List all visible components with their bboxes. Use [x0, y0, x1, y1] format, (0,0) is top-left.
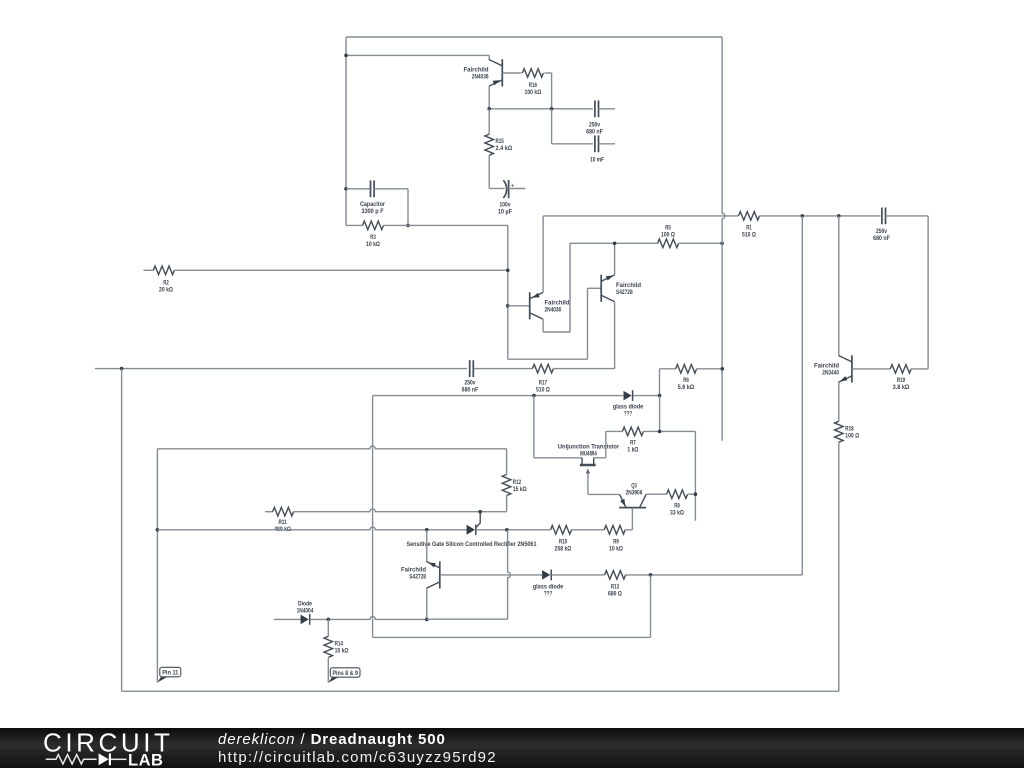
resistor R16: [522, 69, 543, 78]
unijunction transistor MU4894: [580, 458, 596, 495]
wire Q1 collector lead: [488, 55, 490, 59]
svg-text:glass diode: glass diode: [613, 404, 644, 411]
wire Q4 base: [588, 287, 602, 289]
wire R2 left stub: [144, 269, 154, 271]
resistor R11: [273, 507, 294, 516]
svg-text:10 kΩ: 10 kΩ: [366, 241, 380, 248]
wire R6 corner drop: [659, 369, 661, 396]
wire R6 right: [697, 368, 723, 370]
diode D3 1N4004: [301, 614, 310, 625]
svg-text:S42728: S42728: [409, 574, 426, 581]
svg-text:glass diode: glass diode: [533, 584, 564, 591]
capacitor C2 10 mF: [595, 135, 599, 152]
wire Q3 base lead: [631, 508, 633, 530]
wire drop x507 lower: [508, 530, 511, 619]
wire Q2 collector across: [543, 331, 570, 333]
wire rail x157: [156, 449, 158, 683]
svg-text:100 kΩ: 100 kΩ: [525, 89, 542, 96]
resistor R7: [622, 427, 643, 436]
node left-rail junction: [120, 367, 124, 371]
wire C1 right stub: [599, 108, 616, 110]
wire R2 long: [174, 269, 508, 271]
scr 2N5061 Sensitive Gate SCR: [467, 512, 481, 535]
label C5 250v 680nF: [873, 228, 890, 242]
svg-text:R3: R3: [370, 234, 376, 241]
node Q6 collector node: [425, 618, 429, 622]
label Q4 Fairchild S42728: [616, 282, 641, 296]
wire Q1 base: [502, 72, 521, 74]
wire R9 to Q3: [625, 529, 632, 531]
wire Q6 emitter up: [426, 530, 428, 562]
svg-text:???: ???: [544, 591, 552, 598]
wire right drop x928: [927, 216, 929, 369]
node at top-left junction: [344, 54, 348, 58]
CircuitLab logo: [42, 729, 182, 767]
wire Q5 base: [852, 368, 890, 370]
svg-text:R18: R18: [845, 426, 853, 433]
resistor R1: [739, 212, 760, 221]
resistor R3: [363, 221, 384, 230]
wire Q6 base row: [440, 574, 542, 576]
label C1 250v 680nF: [586, 122, 603, 136]
label Q6 Fairchild S42728: [401, 567, 426, 581]
wire R17 right: [553, 368, 614, 370]
node D3 junction R14: [327, 618, 331, 622]
label R16 100k: [525, 82, 542, 96]
label C3 100v 10uF: [498, 202, 512, 216]
wire Q2 emitter up: [542, 216, 544, 293]
resistor R5: [658, 239, 679, 248]
transistor Q5 Fairchild 2N3440: [839, 355, 852, 382]
wire C5 right: [886, 215, 929, 217]
label R18 100: [845, 426, 859, 440]
resistor R15: [485, 134, 494, 155]
label R7 1k: [627, 440, 639, 454]
wire C between R10 R9: [572, 529, 605, 531]
wire center drop x508: [507, 225, 509, 359]
svg-text:R10: R10: [559, 539, 567, 546]
wire Q1 emitter lead: [488, 86, 490, 108]
wire R14 top lead: [327, 619, 329, 636]
wire Q6 collector down: [426, 588, 428, 619]
label Q1 Fairchild 2N4036: [464, 67, 489, 81]
svg-text:Fairchild: Fairchild: [814, 363, 839, 370]
node SCR gate junction: [478, 510, 482, 514]
wire D1 right: [633, 395, 659, 397]
svg-text:Fairchild: Fairchild: [464, 67, 489, 74]
svg-text:3.8 kΩ: 3.8 kΩ: [893, 384, 910, 391]
wire R1 right: [760, 215, 881, 217]
svg-text:680 Ω: 680 Ω: [608, 591, 622, 598]
wire D2 to R13: [552, 574, 605, 576]
wire R7 right: [643, 430, 695, 432]
wire C after SCR: [477, 529, 551, 531]
resistor R10: [551, 526, 572, 535]
svg-text:R8: R8: [674, 503, 680, 510]
transistor Q6 Fairchild S42728: [426, 561, 439, 588]
svg-text:Diode: Diode: [298, 601, 312, 608]
flag Pin 11: [157, 667, 180, 682]
svg-text:Sensitive Gate Silicon Control: Sensitive Gate Silicon Controlled Rectif…: [407, 541, 537, 548]
svg-text:R1: R1: [746, 225, 752, 232]
capacitor C6 250v 680nF mid: [470, 360, 474, 377]
transistor Q1 Fairchild 2N4036: [489, 59, 502, 86]
label R15 2.4k: [496, 138, 513, 152]
wire Q1 collector feed: [346, 54, 489, 56]
label R6 5.6k: [678, 377, 695, 391]
node R2 junction: [506, 269, 510, 273]
node R8 junction: [694, 492, 698, 496]
label C4 Capacitor 3300pF: [360, 201, 385, 215]
node R6 junction: [721, 367, 725, 371]
svg-text:R2: R2: [163, 280, 169, 287]
capacitor C3 100v 10uF polarized: [503, 180, 514, 198]
wire R17 row left: [95, 368, 467, 370]
svg-text:1 kΩ: 1 kΩ: [627, 447, 639, 454]
svg-text:Pin 11: Pin 11: [162, 670, 179, 677]
wire C4 left: [346, 188, 370, 190]
wire D3 left stub: [274, 618, 301, 620]
svg-text:1N4004: 1N4004: [297, 608, 314, 615]
label R19 3.8k: [893, 377, 910, 391]
wire Q2 base: [508, 305, 530, 307]
node D1 junction: [658, 394, 662, 398]
svg-text:680 nF: 680 nF: [873, 235, 890, 242]
wire R6 row: [660, 368, 676, 370]
resistor R2: [153, 266, 174, 275]
resistor R6: [676, 365, 697, 374]
svg-text:510 Ω: 510 Ω: [742, 232, 756, 239]
svg-text:3300 p F: 3300 p F: [361, 208, 383, 215]
svg-text:20 kΩ: 20 kΩ: [159, 287, 173, 294]
svg-text:100 Ω: 100 Ω: [661, 232, 675, 239]
transistor Q4 Fairchild S42728: [601, 275, 614, 302]
svg-text:Unijunction Transistor: Unijunction Transistor: [558, 444, 619, 451]
svg-text:250v: 250v: [464, 379, 475, 386]
node R10 junction: [505, 528, 509, 532]
svg-text:R9: R9: [613, 539, 619, 546]
wire A drop to R12: [506, 449, 508, 475]
label R12 15k: [513, 479, 527, 493]
svg-text:R13: R13: [611, 584, 619, 591]
wire rail x372: [372, 396, 374, 638]
wire R16 to corner: [544, 72, 551, 74]
wire R5 left drop corner: [570, 242, 658, 244]
svg-text:R12: R12: [513, 479, 521, 486]
wire Q2 collector down: [542, 319, 544, 332]
wire R1 row: [543, 215, 738, 217]
svg-text:15 kΩ: 15 kΩ: [335, 648, 349, 655]
node Q5 collector junction: [837, 214, 841, 218]
label R14 15k: [335, 641, 349, 655]
svg-text:R19: R19: [897, 377, 905, 384]
svg-text:100 Ω: 100 Ω: [845, 433, 859, 440]
label R8 33k: [670, 503, 684, 517]
label R13 680: [608, 584, 622, 598]
wire R5 right: [679, 242, 723, 244]
resistor R14: [324, 636, 333, 657]
wire UJT b2 row: [534, 457, 582, 459]
resistor R8: [667, 490, 688, 499]
label R5 100: [661, 225, 675, 239]
svg-text:Pins 8 & 9: Pins 8 & 9: [332, 670, 358, 677]
wire top rail: [346, 36, 722, 38]
svg-text:15 kΩ: 15 kΩ: [513, 486, 527, 493]
label Q2 Fairchild 2N4036: [545, 300, 570, 314]
node R7 junction: [658, 430, 662, 434]
label SCR Sensitive Gate Silicon Controlled Rectifier 2N5061: [407, 541, 537, 548]
wire D1 down: [659, 396, 661, 432]
wire R18 bottom lead: [838, 442, 840, 691]
svg-text:250v: 250v: [876, 228, 887, 235]
wire Q4 base link down: [587, 288, 589, 359]
svg-text:R15: R15: [496, 138, 504, 145]
wire riser x802: [801, 216, 803, 575]
wire C3 left lead: [489, 188, 504, 190]
wire node row y109: [489, 108, 593, 110]
svg-text:R5: R5: [665, 225, 671, 232]
svg-text:100v: 100v: [499, 202, 510, 209]
label D3 Diode 1N4004: [297, 601, 314, 615]
svg-text:Fairchild: Fairchild: [401, 567, 426, 574]
label R11 480k: [274, 519, 291, 533]
wire UJT b1 up: [605, 431, 607, 457]
svg-text:R6: R6: [683, 377, 689, 384]
resistor R17: [532, 364, 553, 373]
label R10 258k: [555, 539, 572, 553]
resistor R18: [835, 421, 844, 442]
wire Q3 collector row: [646, 493, 667, 495]
wire bus x722: [722, 37, 725, 441]
svg-text:258 kΩ: 258 kΩ: [555, 546, 572, 553]
wire 10mF link: [551, 109, 553, 144]
node Q2 base junction: [506, 304, 510, 308]
wire C4 right: [374, 188, 408, 190]
wire D3 row right: [427, 618, 508, 620]
wire C6 to R17: [474, 368, 533, 370]
label Q3 2N3906: [626, 483, 643, 497]
wire R3 left: [346, 224, 363, 226]
node wire-C left junction: [156, 528, 160, 532]
diode D1 glass diode: [624, 390, 633, 401]
wire R12 bottom: [506, 496, 508, 512]
resistor R12: [502, 475, 511, 496]
label C2 10 mF: [590, 157, 604, 164]
label C6 250v 680nF: [462, 379, 479, 393]
label R3 10k: [366, 234, 380, 248]
svg-text:Q3: Q3: [631, 483, 637, 490]
svg-text:680 nF: 680 nF: [462, 387, 479, 394]
wire R13 right: [626, 574, 803, 576]
svg-text:2N3440: 2N3440: [822, 370, 839, 377]
wire drop from R13 node: [650, 575, 652, 638]
resistor R9: [604, 526, 625, 535]
wire R15 top lead: [488, 109, 490, 134]
wire Q2 collector up: [569, 243, 571, 332]
label R1 510: [742, 225, 756, 239]
wire glass-diode row: [373, 395, 624, 397]
wire Q5 collector up: [838, 216, 840, 356]
svg-text:R7: R7: [630, 440, 636, 447]
wire R3 to corner: [384, 224, 508, 226]
svg-text:R11: R11: [278, 519, 286, 526]
label R17 510: [536, 379, 550, 393]
wire A row: [157, 446, 506, 449]
wire bottom-mid row: [373, 636, 651, 638]
wire D3 row: [310, 617, 427, 620]
node R3 right junction: [406, 224, 410, 228]
wire UJT feed down: [533, 396, 535, 458]
wire Q4 collector down: [614, 302, 616, 369]
transistor Q3 2N3906: [619, 494, 646, 507]
svg-text:2N4036: 2N4036: [545, 307, 562, 314]
capacitor C1 250v 680nF: [595, 100, 599, 117]
wire R16 down lead: [551, 73, 553, 109]
wire Q4 emitter up: [614, 243, 616, 275]
svg-text:2N4036: 2N4036: [472, 74, 489, 81]
label R9 10k: [609, 539, 623, 553]
wire C3 right stub: [509, 188, 526, 190]
svg-text:10 mF: 10 mF: [590, 157, 604, 164]
node Q1 emitter junction: [487, 107, 491, 111]
svg-text:2.4 kΩ: 2.4 kΩ: [496, 145, 513, 152]
resistor R13: [605, 571, 626, 580]
wire B row: [294, 509, 507, 512]
svg-text:680 nF: 680 nF: [586, 129, 603, 136]
svg-text:R16: R16: [529, 82, 537, 89]
transistor Q2 Fairchild 2N4036: [530, 292, 543, 319]
node S42728 emitter junction: [425, 528, 429, 532]
wire bottom rail: [122, 690, 839, 692]
wire R19 right: [911, 368, 928, 370]
wire C2 right stub: [599, 143, 616, 145]
wire Q5 emitter down: [838, 382, 840, 421]
flag Pins 8 and 9: [328, 668, 360, 683]
wire C row left: [157, 527, 466, 530]
wire R7 drop x695: [694, 431, 696, 520]
svg-text:LAB: LAB: [128, 752, 163, 768]
svg-text:2N3906: 2N3906: [626, 490, 643, 497]
wire C4 right drop: [407, 189, 409, 226]
capacitor C4 3300pF: [371, 180, 375, 197]
capacitor C5 250v 680nF right: [882, 208, 886, 225]
svg-text:Fairchild: Fairchild: [545, 300, 570, 307]
wire R11 left stub: [265, 511, 273, 513]
svg-text:33 kΩ: 33 kΩ: [670, 510, 684, 517]
label R2 20k: [159, 280, 173, 294]
svg-text:250v: 250v: [589, 122, 600, 129]
diode D2 glass diode: [542, 570, 551, 581]
svg-text:Capacitor: Capacitor: [360, 201, 385, 208]
wire UJT emitter row: [588, 493, 620, 495]
svg-text:10 µF: 10 µF: [498, 209, 512, 216]
svg-text:Fairchild: Fairchild: [616, 282, 641, 289]
node R13 junction: [649, 573, 653, 577]
wire R14 bottom lead: [327, 657, 329, 682]
svg-text:10 kΩ: 10 kΩ: [609, 546, 623, 553]
node R5 right junction: [720, 242, 724, 246]
node R5 left junction: [613, 242, 617, 246]
wire left rail x121: [121, 369, 123, 692]
wire R15 bottom lead: [488, 155, 490, 188]
node UJT feed junction: [532, 394, 536, 398]
wire R8 right: [688, 493, 696, 495]
wire UJT b1 row: [594, 457, 606, 459]
svg-text:5.6 kΩ: 5.6 kΩ: [678, 384, 695, 391]
node R13 riser junction: [801, 214, 805, 218]
label Q5 Fairchild 2N3440: [814, 363, 839, 377]
wire R7 left: [606, 430, 623, 432]
svg-text:S42728: S42728: [616, 289, 633, 296]
label D1 glass diode: [613, 404, 644, 418]
wire 10mF row: [552, 143, 593, 145]
node 3300pF junction: [344, 187, 348, 191]
svg-text:R14: R14: [335, 641, 343, 648]
svg-text:MU4894: MU4894: [580, 451, 597, 458]
label D2 glass diode: [533, 584, 564, 598]
label UJT Unijunction Transistor MU4894: [558, 444, 619, 458]
svg-text:???: ???: [624, 411, 632, 418]
wire S-base row: [508, 358, 588, 360]
svg-text:R17: R17: [539, 379, 547, 386]
svg-text:510 Ω: 510 Ω: [536, 387, 550, 394]
node R16 junction: [550, 107, 554, 111]
wire top-left vertical: [345, 37, 347, 225]
resistor R19: [890, 365, 911, 374]
